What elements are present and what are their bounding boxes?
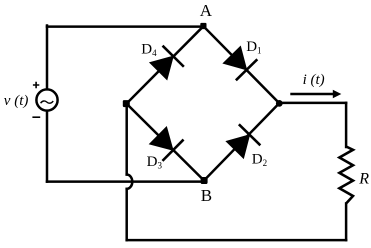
wire right horizontal (node to corner) [279, 102, 346, 105]
wire bottom horizontal [127, 239, 346, 242]
svg-text:D1: D1 [246, 39, 261, 56]
wire diamond arm left to A [127, 26, 204, 103]
wire left-node vertical lower [125, 189, 128, 240]
wire diamond arm left to B [127, 104, 205, 181]
svg-text:i (t): i (t) [303, 72, 325, 88]
diode D3 cathode bar [162, 140, 183, 161]
wire left vertical upper [46, 26, 49, 90]
wire top horizontal [47, 25, 203, 28]
wire right vertical lower [345, 204, 348, 241]
wire hop over mid wire [127, 175, 133, 189]
diode D2 triangle [226, 135, 249, 158]
svg-text:B: B [201, 186, 212, 205]
wire right vertical upper [345, 103, 348, 147]
svg-text:v (t): v (t) [4, 93, 29, 109]
node left junction square [123, 100, 130, 107]
diode D1 cathode bar [236, 59, 257, 80]
source plus sign [33, 82, 39, 88]
wire mid horizontal (source to node B) [47, 180, 204, 183]
svg-text:D2: D2 [252, 152, 267, 169]
diode D4 triangle [150, 56, 173, 79]
resistor R zigzag [339, 147, 353, 204]
source v(t) circle [36, 89, 57, 110]
node right junction dot [276, 100, 283, 107]
svg-text:A: A [200, 1, 213, 20]
svg-text:R: R [358, 171, 369, 188]
node B junction dot [201, 177, 208, 184]
current arrow i(t) [290, 93, 333, 95]
wire diamond arm B to right [204, 103, 279, 180]
diode D4 cathode bar [163, 46, 184, 67]
wire left vertical lower [46, 111, 49, 182]
diode D3 triangle [150, 127, 173, 150]
node A junction square [200, 23, 206, 29]
svg-text:D3: D3 [147, 154, 163, 171]
diode D1 triangle [223, 46, 246, 69]
source tilde [41, 101, 54, 103]
wire diamond arm A to right [203, 26, 279, 103]
wire left-node vertical upper [125, 104, 128, 175]
svg-text:D4: D4 [141, 41, 157, 58]
diode D2 cathode bar [239, 124, 260, 145]
source minus sign [32, 116, 40, 118]
